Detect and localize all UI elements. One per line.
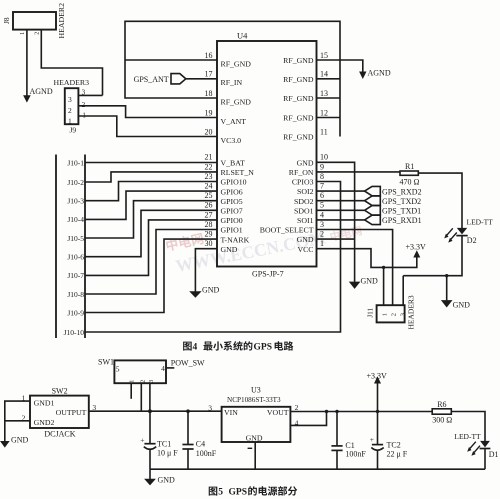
svg-text:U3: U3 <box>251 385 261 394</box>
wire VCC to +3.3V <box>317 249 417 268</box>
connector J10 left bar <box>55 155 57 339</box>
svg-text:2: 2 <box>320 230 324 239</box>
wire RF_GND loop <box>125 21 340 136</box>
svg-text:1: 1 <box>320 239 324 248</box>
wire J10-10 to CPIO3 <box>85 182 341 333</box>
wire J10-7 to pin 27 <box>85 220 217 276</box>
svg-text:GND: GND <box>453 301 471 310</box>
wire pin30 to GND <box>195 249 217 292</box>
svg-text:GND: GND <box>297 158 314 167</box>
connector SW2 (DCJACK) box <box>30 396 89 428</box>
connector J10 right bar <box>84 155 86 339</box>
net tag GPS_RXD1 <box>365 215 381 224</box>
svg-text:12: 12 <box>320 108 328 117</box>
svg-text:2: 2 <box>35 32 41 35</box>
svg-text:D1: D1 <box>489 450 499 459</box>
LED D2 <box>457 228 467 235</box>
net tag GPS_TXD2 <box>365 196 381 205</box>
svg-text:18: 18 <box>205 89 213 98</box>
svg-text:470 Ω: 470 Ω <box>400 177 420 186</box>
svg-text:4: 4 <box>161 364 165 373</box>
svg-text:J10-2: J10-2 <box>67 178 84 187</box>
svg-text:8: 8 <box>320 172 324 181</box>
svg-text:GPS-JP-7: GPS-JP-7 <box>252 270 284 279</box>
svg-text:1: 1 <box>129 380 135 383</box>
svg-text:HEADER2: HEADER2 <box>57 3 66 39</box>
svg-text:GPIO0: GPIO0 <box>221 216 243 225</box>
caption 图5 GPS的电源部分 <box>209 487 218 496</box>
svg-text:C4: C4 <box>196 439 205 448</box>
wire GND net pin10 <box>317 162 355 282</box>
svg-text:HEADER3: HEADER3 <box>54 78 90 87</box>
svg-text:RF_GND: RF_GND <box>221 59 252 68</box>
svg-text:LED-TT: LED-TT <box>467 217 494 226</box>
svg-text:RF_ON: RF_ON <box>289 168 314 177</box>
svg-text:R6: R6 <box>437 400 446 409</box>
svg-text:28: 28 <box>205 220 213 229</box>
svg-text:DCJACK: DCJACK <box>44 430 75 439</box>
resistor R6 <box>432 409 451 414</box>
svg-text:NCP1086ST-33T3: NCP1086ST-33T3 <box>227 396 281 404</box>
wire pin stub GPS_RXD2 <box>317 190 365 192</box>
wire J10-5 to pin 25 <box>85 201 217 238</box>
svg-text:V_BAT: V_BAT <box>221 159 245 168</box>
wire J10-8 to pin 28 <box>85 230 217 295</box>
IC U4 GPS-JP-7 box <box>217 41 317 267</box>
wire J10-1 to pin 21 <box>85 162 217 164</box>
svg-text:RLSET_N: RLSET_N <box>221 168 255 177</box>
svg-text:GPIO6: GPIO6 <box>221 187 243 196</box>
svg-text:2: 2 <box>68 106 72 115</box>
svg-text:RF_GND: RF_GND <box>283 133 314 142</box>
svg-text:4: 4 <box>193 343 198 353</box>
svg-text:J10-3: J10-3 <box>67 197 84 206</box>
svg-text:RF_GND: RF_GND <box>283 56 314 65</box>
svg-text:23: 23 <box>205 172 213 181</box>
svg-text:SOI2: SOI2 <box>297 187 314 196</box>
svg-text:SOI1: SOI1 <box>297 216 314 225</box>
svg-text:3: 3 <box>399 313 406 316</box>
svg-text:GND2: GND2 <box>34 418 55 427</box>
svg-text:100nF: 100nF <box>345 450 366 459</box>
svg-text:17: 17 <box>205 70 213 79</box>
ground GND right of U4 <box>349 282 361 289</box>
switch SW1 (POW_SW) box <box>114 360 166 383</box>
wire J10-6 to pin 26 <box>85 210 217 256</box>
svg-text:VCC: VCC <box>297 245 313 254</box>
wire GND drop <box>149 469 151 479</box>
svg-text:CPIO3: CPIO3 <box>292 178 314 187</box>
net tag GPS_TXD1 <box>365 206 381 215</box>
watermark 中电网 <box>165 232 204 252</box>
wire RF_ON to R1 <box>317 171 401 173</box>
svg-text:6: 6 <box>320 191 324 200</box>
svg-text:RF_IN: RF_IN <box>221 78 243 87</box>
svg-text:V_ANT: V_ANT <box>221 117 247 126</box>
wire J10-4 to pin 24 <box>85 191 217 219</box>
wire pin14 stub <box>317 78 341 80</box>
svg-text:J10-9: J10-9 <box>67 308 84 317</box>
svg-text:GPS_ANT: GPS_ANT <box>134 75 169 84</box>
svg-text:100nF: 100nF <box>196 449 217 458</box>
svg-text:10 μ F: 10 μ F <box>157 449 178 458</box>
wire SW1 pin4 stub <box>166 367 174 369</box>
svg-text:5: 5 <box>218 488 223 498</box>
svg-text:+3.3V: +3.3V <box>406 242 427 251</box>
connector J8 (HEADER2) <box>13 12 56 30</box>
svg-text:RF_GND: RF_GND <box>221 97 252 106</box>
svg-text:J10-8: J10-8 <box>67 290 84 299</box>
svg-text:R1: R1 <box>405 162 414 171</box>
wire pin15 stub <box>317 59 341 61</box>
wire SW1 pin a stub <box>130 383 132 399</box>
svg-text:J10-4: J10-4 <box>67 215 84 224</box>
caption 图4 最小系统的GPS电路 <box>183 342 192 351</box>
wire SW1 pin c <box>149 383 151 411</box>
svg-text:J10-10: J10-10 <box>64 328 85 337</box>
wire OUTPUT rail VIN <box>89 410 222 412</box>
svg-text:LED-TT: LED-TT <box>454 432 481 441</box>
svg-text:10: 10 <box>320 153 328 162</box>
wire D1 down <box>484 449 486 470</box>
wire SW1 pin b <box>140 383 142 411</box>
svg-text:5: 5 <box>116 364 120 373</box>
svg-text:SW1: SW1 <box>98 358 114 367</box>
wire SW2 grounds <box>5 401 30 441</box>
svg-text:GPS: GPS <box>254 343 272 353</box>
svg-text:3: 3 <box>320 220 324 229</box>
svg-text:3: 3 <box>208 404 212 413</box>
svg-text:27: 27 <box>205 210 213 219</box>
power +3.3V bottom <box>377 383 379 412</box>
svg-text:1: 1 <box>381 313 388 316</box>
svg-text:21: 21 <box>205 153 213 162</box>
svg-text:AGND: AGND <box>30 87 53 96</box>
svg-text:OUTPUT: OUTPUT <box>56 408 87 417</box>
svg-text:1: 1 <box>68 116 72 125</box>
wire VOUT rail <box>290 411 432 413</box>
wire J11 pin3 <box>402 276 404 306</box>
svg-text:TC2: TC2 <box>387 440 401 449</box>
svg-text:SW2: SW2 <box>52 386 68 395</box>
net tag GPS_RXD2 <box>365 186 381 195</box>
svg-text:GPIO10: GPIO10 <box>221 178 247 187</box>
connector J9 (HEADER3) <box>65 88 79 124</box>
svg-text:SDO2: SDO2 <box>294 197 314 206</box>
svg-text:GND: GND <box>221 245 238 254</box>
wire D2 cathode rail <box>403 236 462 276</box>
svg-text:GPS_TXD1: GPS_TXD1 <box>382 207 421 216</box>
svg-text:RF_GND: RF_GND <box>283 114 314 123</box>
wire pin stub GPS_TXD1 <box>317 209 365 211</box>
svg-text:GPIO7: GPIO7 <box>221 207 243 216</box>
net tag GPS_ANT <box>171 74 186 84</box>
svg-text:25: 25 <box>205 191 213 200</box>
ground GND below U4 <box>189 291 201 298</box>
power AGND right <box>359 72 366 80</box>
wire J8 pin2 to J9 pin3 <box>41 30 102 96</box>
svg-text:J10-5: J10-5 <box>67 234 84 243</box>
svg-text:GPS_RXD2: GPS_RXD2 <box>382 187 422 196</box>
wire J9 pin3 stub <box>78 94 102 96</box>
svg-text:7: 7 <box>320 182 324 191</box>
svg-text:VC3.0: VC3.0 <box>221 136 242 145</box>
svg-text:GND: GND <box>202 286 220 295</box>
svg-text:GPS_TXD2: GPS_TXD2 <box>382 197 421 206</box>
capacitor TC1 <box>149 411 151 443</box>
svg-text:RF_GND: RF_GND <box>283 75 314 84</box>
ground GND bottom <box>144 479 156 486</box>
wire J10-9 to pin 29 <box>85 239 217 312</box>
svg-text:300 Ω: 300 Ω <box>432 415 452 424</box>
svg-text:3: 3 <box>149 380 155 383</box>
ground GND at SW2 <box>0 441 10 448</box>
svg-text:GND: GND <box>361 277 379 286</box>
wire pin13 stub <box>317 97 341 99</box>
svg-text:5: 5 <box>320 201 324 210</box>
wire pin stub GPS_TXD2 <box>317 200 365 202</box>
svg-text:16: 16 <box>205 51 213 60</box>
svg-text:2: 2 <box>82 101 86 109</box>
svg-text:D2: D2 <box>467 236 477 245</box>
svg-text:9: 9 <box>320 162 324 171</box>
regulator U3 box <box>222 407 291 442</box>
svg-text:15: 15 <box>320 51 328 60</box>
wire J10-3 to pin 23 <box>85 182 217 201</box>
svg-text:AGND: AGND <box>368 68 391 77</box>
svg-text:14: 14 <box>320 70 328 79</box>
svg-text:24: 24 <box>205 182 213 191</box>
svg-text:19: 19 <box>205 108 213 117</box>
svg-text:26: 26 <box>205 201 213 210</box>
svg-text:GND: GND <box>246 433 263 442</box>
wire pin stub GPS_RXD1 <box>317 219 365 221</box>
svg-text:GPIO5: GPIO5 <box>221 197 243 206</box>
svg-text:GND1: GND1 <box>34 398 55 407</box>
wire BOOT_SELECT to J11 pin2 <box>317 230 393 306</box>
svg-text:BOOT_SELECT: BOOT_SELECT <box>260 226 314 235</box>
wire R6 to D1 <box>451 412 485 442</box>
wire J11 pin1 <box>383 267 385 305</box>
capacitor C4 <box>187 411 189 444</box>
svg-text:GPS_RXD1: GPS_RXD1 <box>382 216 422 225</box>
svg-text:J11: J11 <box>367 308 375 318</box>
power AGND left <box>23 95 31 102</box>
capacitor TC2 <box>377 412 379 445</box>
svg-text:TC1: TC1 <box>157 439 171 448</box>
svg-text:J10-1: J10-1 <box>67 158 84 167</box>
svg-text:POW_SW: POW_SW <box>171 359 205 368</box>
U3 GND pin mark <box>248 447 253 449</box>
svg-text:J9: J9 <box>70 126 77 135</box>
svg-text:3: 3 <box>68 95 72 104</box>
svg-text:+: + <box>370 435 374 444</box>
watermark 中电网 small <box>330 225 363 242</box>
svg-text:T-NARK: T-NARK <box>221 235 250 244</box>
ground GND under D2 <box>441 300 453 307</box>
svg-text:30: 30 <box>205 239 213 248</box>
LED D1 <box>480 441 490 448</box>
svg-text:J8: J8 <box>2 17 11 24</box>
wire J9 pin1 to VC3.0 <box>78 116 217 137</box>
svg-text:4: 4 <box>320 210 324 219</box>
svg-text:HEADER3: HEADER3 <box>407 295 416 329</box>
wire J8 pin1 to AGND <box>26 30 28 96</box>
svg-text:22 μ F: 22 μ F <box>387 449 408 458</box>
svg-text:13: 13 <box>320 89 328 98</box>
svg-text:+: + <box>140 436 144 445</box>
svg-text:U4: U4 <box>237 31 248 41</box>
svg-text:11: 11 <box>320 127 328 136</box>
svg-text:J10-6: J10-6 <box>67 253 84 262</box>
svg-text:GND: GND <box>297 235 314 244</box>
wire pin16 stub <box>125 59 217 61</box>
svg-text:VIN: VIN <box>224 408 238 417</box>
wire R1 to LED D2 <box>418 173 462 228</box>
wire pin12 stub <box>317 117 341 119</box>
svg-text:2: 2 <box>390 313 397 316</box>
wire AGND tap <box>340 60 363 72</box>
wire J10-2 to pin 22 <box>85 172 217 182</box>
svg-text:+3.3V: +3.3V <box>367 372 388 381</box>
svg-text:GPIO1: GPIO1 <box>221 226 243 235</box>
wire U3 GND down <box>254 442 256 469</box>
svg-text:2: 2 <box>140 380 146 383</box>
wire U3 pin4 loop <box>290 412 326 426</box>
svg-text:29: 29 <box>205 230 213 239</box>
resistor R1 <box>400 171 418 175</box>
wire D2 GND tap <box>446 276 448 301</box>
wire pin2 GND stub <box>317 238 355 240</box>
wire bottom rail <box>150 468 485 470</box>
svg-text:SDO1: SDO1 <box>294 206 314 215</box>
power +3.3V top <box>413 250 420 257</box>
wire GPS_ANT to RF_IN <box>186 78 217 80</box>
connector J11 (HEADER3) <box>377 305 405 322</box>
svg-text:GPS: GPS <box>229 488 247 498</box>
svg-text:J10-7: J10-7 <box>67 271 84 280</box>
wire J9 pin2 to V_ANT <box>78 106 217 118</box>
svg-text:1: 1 <box>20 32 26 35</box>
svg-text:GND: GND <box>158 476 176 485</box>
svg-text:GND: GND <box>11 436 29 445</box>
svg-text:RF_GND: RF_GND <box>283 94 314 103</box>
svg-text:22: 22 <box>205 162 213 171</box>
svg-text:20: 20 <box>205 127 213 136</box>
capacitor C1 <box>336 412 338 446</box>
svg-text:VOUT: VOUT <box>267 408 289 417</box>
